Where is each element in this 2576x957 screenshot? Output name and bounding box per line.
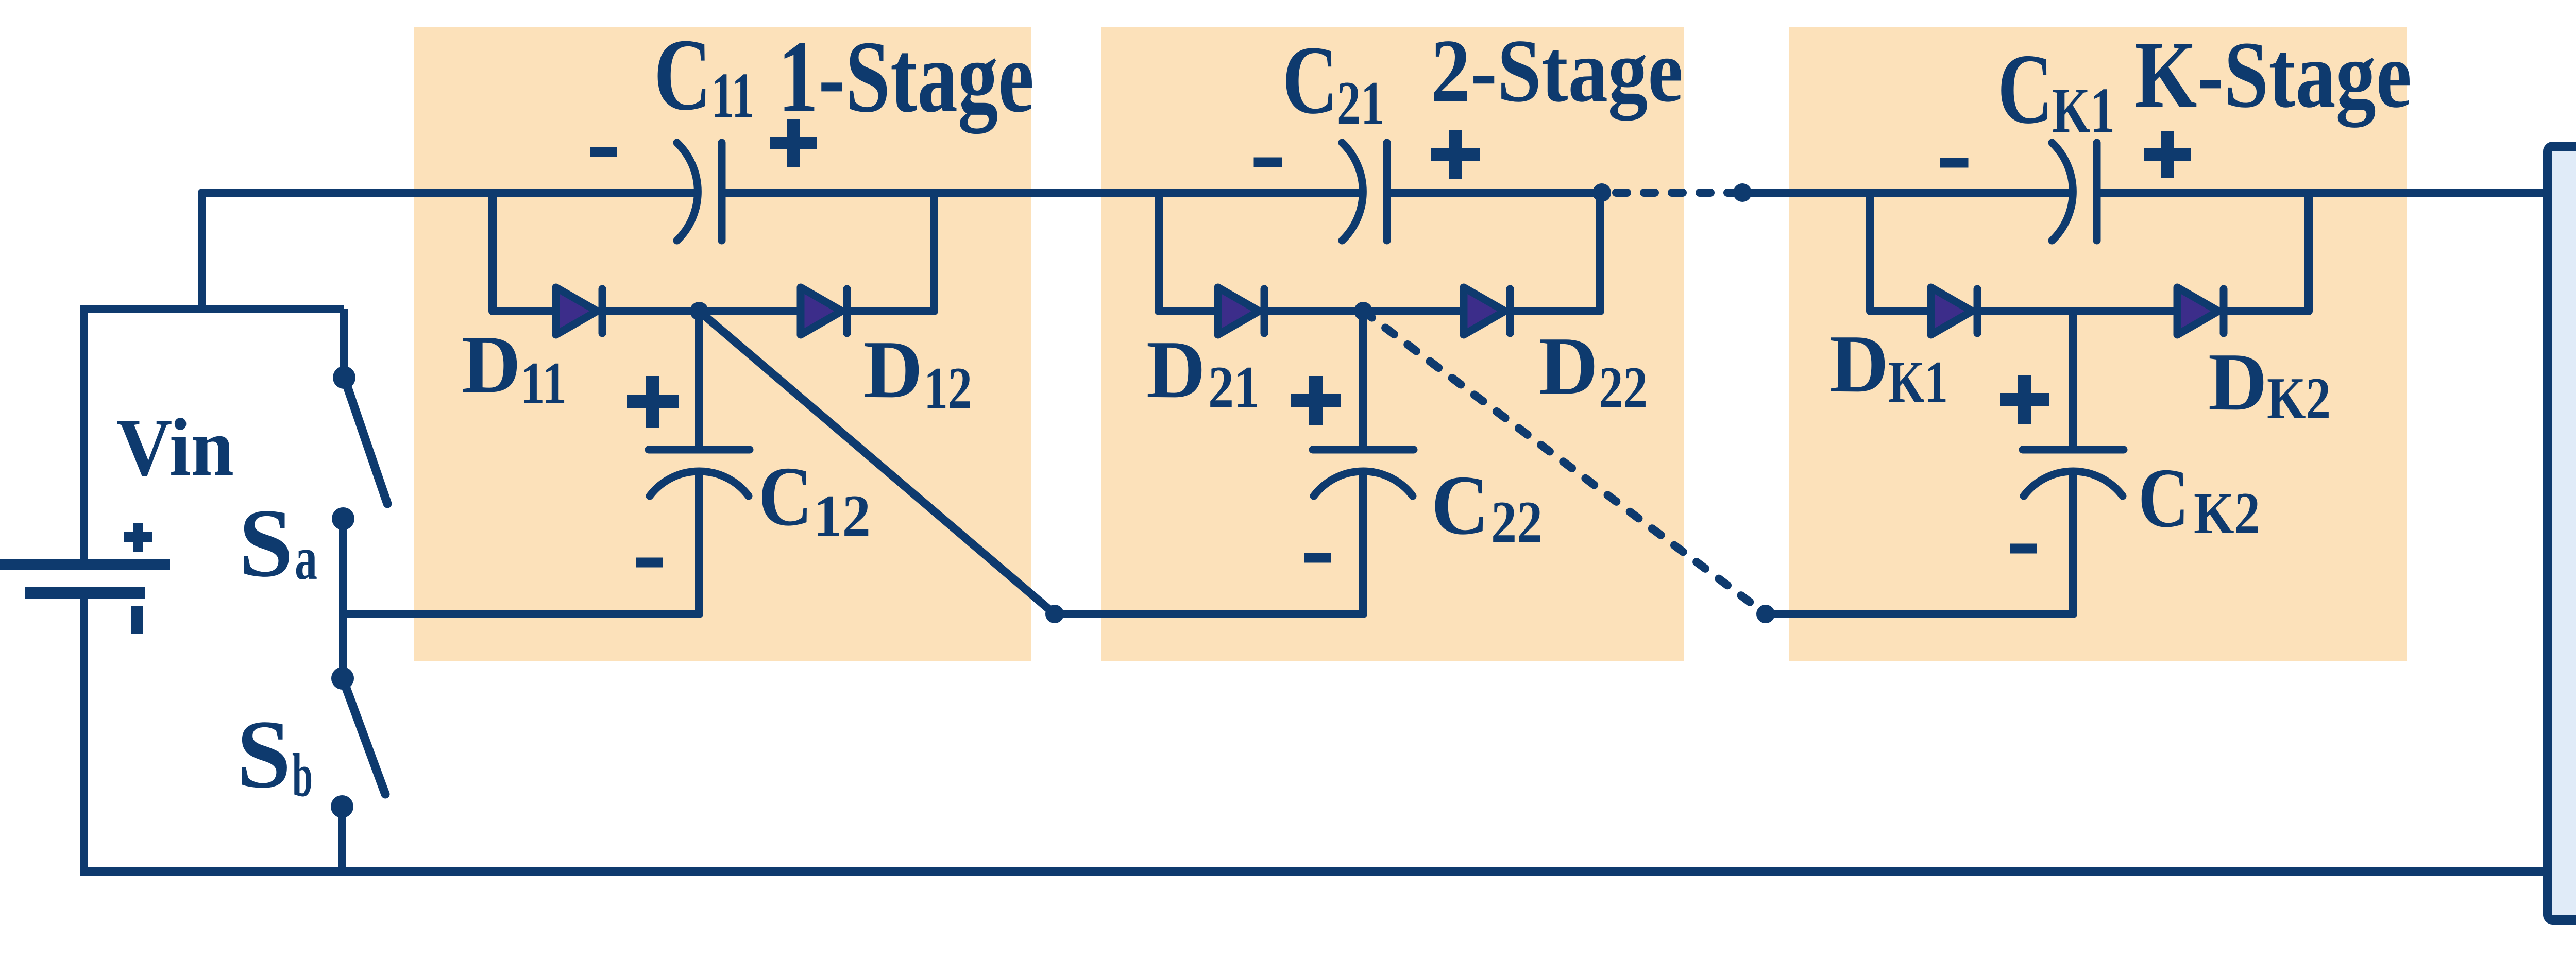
wire: top rail from C21 to node after D22 branch [1387, 189, 1602, 197]
svg-text:22: 22 [1599, 355, 1648, 420]
switch Sa terminal dots [333, 366, 355, 389]
diode D12 [801, 287, 847, 335]
svg-text:C: C [1997, 33, 2053, 145]
svg-text:b: b [292, 741, 313, 809]
wire: 2-Stage branch loop [1159, 193, 1600, 311]
svg-text:D: D [1146, 323, 1206, 415]
svg-text:C: C [1282, 26, 1338, 134]
CK1 polarity marks [1940, 158, 1969, 168]
wire: top rail left end, down to Vin loop [202, 193, 697, 309]
node: top rail at K-stage input [1733, 183, 1752, 202]
capacitor C11 (series, curved plate left / straight plate right) [677, 143, 722, 241]
svg-text:22: 22 [1491, 489, 1543, 555]
node: stage1 diode junction [690, 302, 708, 320]
svg-text:21: 21 [1208, 354, 1260, 420]
diode DK2 [2177, 287, 2224, 335]
svg-text:C: C [758, 449, 812, 543]
wire: 1-Stage branch loop (left drop, diode row, right rise) [493, 193, 934, 311]
wire: dashed diagonal link to K-Stage bottom [1363, 311, 1766, 614]
wire: C12 bottom lead and stage-1 bottom rail to switches [343, 468, 699, 614]
svg-text:C: C [654, 18, 711, 132]
svg-text:D: D [863, 323, 923, 415]
diode D21 [1218, 287, 1264, 335]
switch Sb blade [343, 678, 385, 794]
battery minus sign [131, 606, 143, 634]
switch Sa blade [344, 378, 387, 504]
svg-text:K1: K1 [1888, 349, 1948, 415]
diode D22 [1464, 287, 1510, 335]
svg-text:11: 11 [711, 60, 754, 131]
wire: dashed top rail segment between 2-Stage and K-Stage [1616, 189, 1742, 197]
wire: battery to bottom rail [80, 593, 88, 876]
wire: C22 bottom lead and stage-2 bottom rail [1055, 468, 1363, 614]
wire: C12 top lead from node [695, 311, 703, 450]
svg-text:S: S [239, 489, 293, 597]
wire: battery to Vin loop top [80, 305, 88, 560]
node: dashed diagonal to K-stage bottom [1756, 605, 1775, 623]
C11 polarity marks [590, 147, 617, 157]
svg-text:11: 11 [520, 350, 567, 416]
svg-text:D: D [1829, 318, 1889, 409]
capacitor C21 (series, curved plate left / straight plate right) [1342, 143, 1387, 241]
label High Voltage Appliances [2560, 305, 2576, 725]
1-Stage highlight box [414, 27, 1031, 661]
svg-text:D: D [462, 318, 521, 410]
C12 polarity marks [627, 376, 679, 428]
svg-text:High Voltage: High Voltage [2560, 305, 2576, 725]
wire: diagonal link stage1 bottom node [699, 311, 1055, 614]
battery plus sign [124, 523, 152, 552]
svg-text:21: 21 [1337, 69, 1384, 137]
svg-text:K2: K2 [2194, 481, 2260, 546]
switch Sb terminal dots [331, 667, 354, 690]
wire: CK2 top lead from node [2069, 311, 2077, 450]
svg-text:a: a [295, 524, 317, 592]
diode D11 [556, 287, 602, 335]
K-Stage highlight box [1789, 27, 2407, 661]
svg-text:C: C [2138, 451, 2189, 545]
capacitor CK2 (shunt, straight plate top / curved plate below) [2023, 450, 2124, 496]
wire: Vin loop top [84, 305, 344, 313]
C22 polarity marks [1291, 376, 1341, 425]
svg-text:12: 12 [924, 355, 972, 421]
svg-text:D: D [2208, 336, 2267, 428]
diode DK1 [1931, 287, 1977, 335]
svg-text:12: 12 [814, 483, 871, 549]
wire: Sb bottom lead [338, 807, 346, 871]
svg-text:1-Stage: 1-Stage [778, 20, 1034, 134]
node: stage1 diagonal to stage2 bottom [1045, 605, 1064, 623]
svg-text:S: S [236, 700, 291, 809]
capacitor C22 (shunt, straight plate top / curved plate below) [1313, 450, 1414, 496]
wire: top rail from C11 to C21 [722, 189, 1365, 197]
wire: C22 top lead from node [1359, 311, 1367, 450]
wire: Sa bottom to Sb top lead [339, 519, 347, 678]
node: top rail at 2-stage output [1592, 183, 1611, 202]
wire: top rail from dashed joint to CK1 [1742, 189, 2074, 197]
capacitor C12 (shunt, straight plate top / curved plate below) [649, 450, 750, 496]
capacitor CK1 (series, curved plate left / straight plate right) [2052, 143, 2097, 241]
svg-text:K1: K1 [2052, 75, 2115, 146]
svg-text:2-Stage: 2-Stage [1431, 21, 1683, 121]
node: stage2 diode junction [1354, 302, 1372, 320]
C21 polarity marks [1254, 158, 1282, 167]
battery Vin negative plate [25, 587, 145, 599]
svg-text:Vin: Vin [116, 401, 234, 493]
battery Vin positive plate [0, 559, 170, 570]
svg-text:K2: K2 [2267, 366, 2331, 431]
High Voltage Appliances load box [2548, 146, 2576, 920]
wire: top rail from CK1 to load box [2097, 189, 2549, 197]
wire: Sa top lead [340, 309, 348, 378]
svg-text:K-Stage: K-Stage [2134, 22, 2412, 128]
svg-text:C: C [1431, 458, 1489, 552]
wire: bottom rail [80, 867, 2549, 876]
wire: K-Stage branch loop [1870, 193, 2309, 311]
wire: CK2 bottom lead and K-stage bottom rail [1766, 468, 2073, 614]
svg-text:D: D [1539, 320, 1598, 412]
2-Stage highlight box [1101, 27, 1684, 661]
CK2 polarity marks [2000, 375, 2049, 424]
